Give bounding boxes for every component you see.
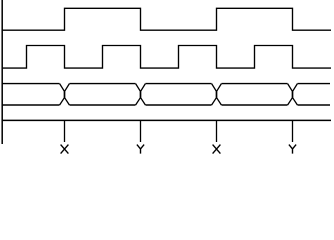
baseline — [2, 119, 331, 121]
label Y2 — [289, 145, 296, 154]
bus crossover 3 — [212, 84, 222, 105]
bus crossover 4 — [288, 84, 298, 105]
waveform W2 (second square wave) — [2, 46, 331, 69]
label Y1 — [137, 145, 144, 154]
bus crossover 1 — [60, 84, 70, 105]
tick X1 — [64, 120, 66, 142]
label X1 — [61, 145, 69, 154]
waveform W1 (top square wave) — [2, 8, 331, 30]
tick Y1 — [140, 120, 142, 142]
tick Y2 — [292, 120, 294, 142]
bus top line — [2, 83, 330, 85]
label X2 — [213, 145, 221, 154]
tick X2 — [216, 120, 218, 142]
bus crossover 2 — [136, 84, 146, 105]
bus bottom line — [2, 104, 330, 106]
axis — [1, 0, 3, 144]
